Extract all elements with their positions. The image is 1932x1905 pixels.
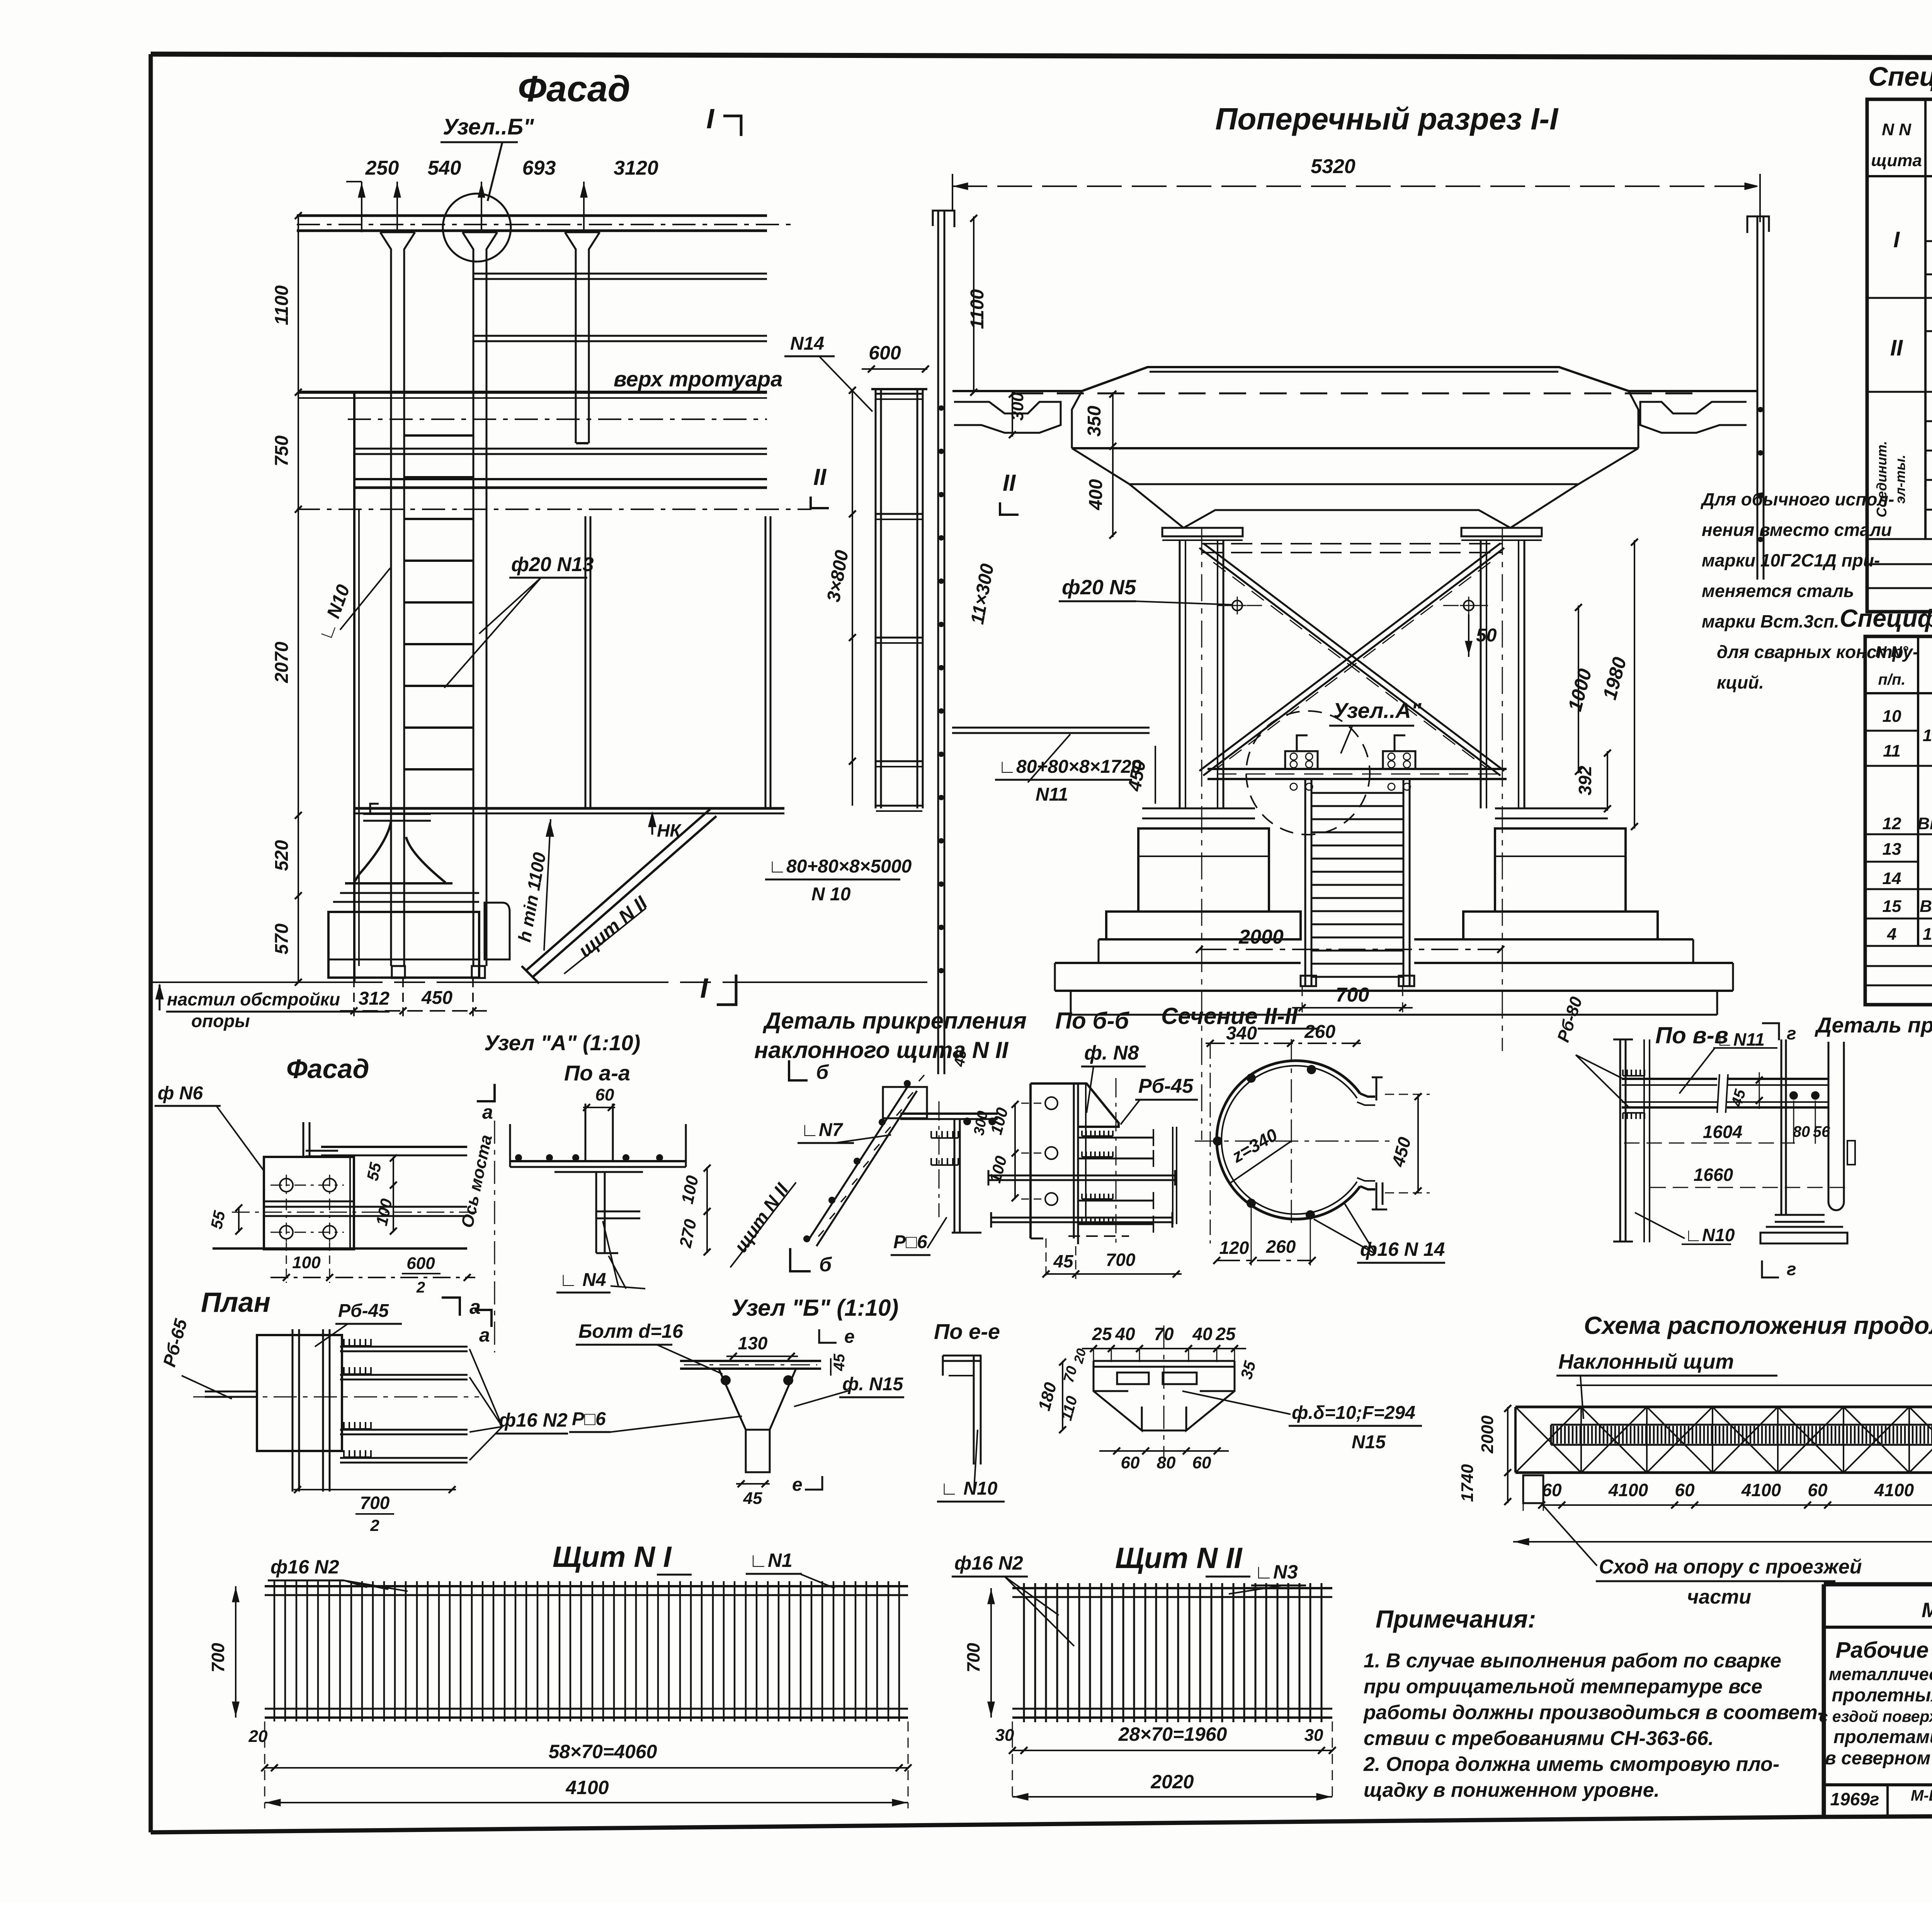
svg-text:350: 350: [1084, 406, 1105, 437]
svg-text:ф. N15: ф. N15: [842, 1374, 904, 1395]
svg-text:N11: N11: [1036, 784, 1068, 805]
svg-text:25: 25: [1215, 1324, 1236, 1344]
svg-text:693: 693: [522, 157, 556, 179]
svg-text:металлических жел.дор: металлических жел.дор: [1829, 1664, 1932, 1684]
svg-text:700: 700: [963, 1643, 983, 1672]
svg-text:Рб-45: Рб-45: [338, 1301, 389, 1321]
svg-text:a: a: [469, 1296, 481, 1318]
svg-text:260: 260: [1266, 1237, 1296, 1257]
svg-text:Для обычного испол-: Для обычного испол-: [1700, 489, 1894, 509]
svg-text:4100: 4100: [1874, 1480, 1914, 1500]
svg-text:в северном исполнении: в северном исполнении: [1825, 1748, 1932, 1769]
svg-text:б: б: [816, 1061, 829, 1083]
svg-text:ф20 N5: ф20 N5: [1062, 576, 1136, 599]
svg-text:N15: N15: [1352, 1432, 1386, 1453]
svg-text:2000: 2000: [1478, 1415, 1497, 1454]
svg-text:2: 2: [370, 1516, 379, 1534]
svg-text:Фасад: Фасад: [518, 68, 630, 109]
svg-text:∟N10: ∟N10: [1685, 1225, 1735, 1245]
svg-text:Спецификация металла на лестни: Спецификация металла на лестничный сход: [1840, 604, 1932, 632]
svg-text:60: 60: [1192, 1453, 1211, 1472]
svg-text:НК: НК: [657, 820, 682, 840]
detail: Узел Б (1:10): [569, 1295, 904, 1508]
svg-text:2. Опора должна иметь смотрову: 2. Опора должна иметь смотровую пло-: [1363, 1753, 1779, 1776]
svg-text:a: a: [479, 1324, 490, 1346]
svg-text:600: 600: [869, 342, 901, 364]
svg-text:∟ N10: ∟ N10: [940, 1478, 998, 1499]
svg-text:700: 700: [1336, 984, 1369, 1006]
svg-text:45: 45: [1053, 1251, 1074, 1271]
svg-text:80: 80: [1793, 1123, 1810, 1140]
svg-text:ф.δ=10;F=294: ф.δ=10;F=294: [1292, 1403, 1415, 1423]
svg-text:1969г: 1969г: [1830, 1789, 1879, 1809]
svg-text:1. В случае выполнения работ п: 1. В случае выполнения работ по сварке: [1364, 1650, 1781, 1672]
svg-text:Щит N II: Щит N II: [1115, 1542, 1243, 1575]
svg-text:II: II: [1890, 335, 1903, 361]
svg-text:260: 260: [1304, 1022, 1335, 1042]
svg-text:700: 700: [208, 1643, 228, 1672]
svg-text:30: 30: [995, 1726, 1014, 1745]
svg-text:г: г: [1787, 1259, 1796, 1279]
svg-text:10Г2С1Д: 10Г2С1Д: [1923, 726, 1932, 745]
detail: По в-в: [1554, 994, 1855, 1279]
svg-text:392: 392: [1575, 765, 1595, 795]
svg-text:щита: щита: [1871, 151, 1922, 170]
svg-text:N14: N14: [790, 333, 824, 354]
svg-text:∟ N4: ∟ N4: [559, 1270, 606, 1290]
panel: Щит N I: [208, 1541, 912, 1808]
svg-text:марки 10Г2С1Д при-: марки 10Г2С1Д при-: [1702, 550, 1880, 570]
svg-text:N N: N N: [1882, 120, 1912, 139]
svg-text:кций.: кций.: [1717, 672, 1764, 692]
svg-text:130: 130: [738, 1333, 768, 1353]
svg-text:5320: 5320: [1311, 155, 1355, 178]
svg-text:14: 14: [1883, 869, 1901, 888]
svg-text:700: 700: [360, 1493, 390, 1513]
svg-text:работы должны производиться в: работы должны производиться в соответ-: [1363, 1701, 1824, 1724]
svg-text:50: 50: [1476, 625, 1497, 646]
svg-text:40: 40: [1115, 1324, 1135, 1344]
svg-text:4: 4: [1887, 925, 1896, 944]
svg-text:Соединит.: Соединит.: [1874, 441, 1889, 517]
svg-text:30: 30: [1304, 1726, 1323, 1745]
svg-text:ф16 N2: ф16 N2: [499, 1409, 568, 1431]
svg-text:ф N6: ф N6: [158, 1083, 203, 1104]
svg-text:4100: 4100: [565, 1777, 609, 1798]
svg-text:Рб-45: Рб-45: [1138, 1075, 1194, 1097]
svg-text:Деталь прикрепления: Деталь прикрепления: [762, 1008, 1027, 1034]
svg-text:2020: 2020: [1150, 1771, 1194, 1793]
svg-text:45: 45: [743, 1489, 762, 1508]
svg-text:520: 520: [272, 840, 292, 871]
svg-text:4100: 4100: [1741, 1480, 1781, 1500]
svg-text:25: 25: [1092, 1324, 1112, 1344]
svg-text:Поперечный разрез I-I: Поперечный разрез I-I: [1215, 102, 1559, 136]
svg-text:Наклонный щит: Наклонный щит: [1558, 1350, 1734, 1373]
svg-text:По е-е: По е-е: [934, 1319, 1000, 1344]
svg-text:Узел..А": Узел..А": [1333, 698, 1422, 723]
svg-text:1740: 1740: [1458, 1464, 1477, 1502]
svg-text:12: 12: [1883, 814, 1901, 833]
svg-text:ствии с требованиями СН-363-6: ствии с требованиями СН-363-66.: [1364, 1727, 1714, 1750]
svg-text:60: 60: [1121, 1453, 1140, 1472]
svg-text:Схема расположения продольных: Схема расположения продольных ходов (по …: [1584, 1311, 1932, 1339]
svg-text:700: 700: [1106, 1250, 1136, 1270]
svg-text:250: 250: [365, 157, 399, 179]
svg-text:марки Вст.3сп.: марки Вст.3сп.: [1702, 611, 1839, 631]
svg-text:эл-ты.: эл-ты.: [1892, 454, 1908, 503]
svg-text:2: 2: [416, 1279, 425, 1296]
svg-text:г: г: [1787, 1023, 1796, 1043]
svg-text:Спецификация металла на продол: Спецификация металла на продольные смотр…: [1868, 61, 1932, 92]
svg-text:450: 450: [421, 988, 452, 1008]
svg-text:2000: 2000: [1238, 926, 1284, 948]
svg-text:1660: 1660: [1694, 1165, 1733, 1185]
svg-text:60: 60: [1808, 1480, 1828, 1500]
svg-text:е: е: [792, 1475, 803, 1495]
svg-text:с ездой поверху на балласте: с ездой поверху на балласте: [1819, 1708, 1932, 1725]
svg-text:Примечания:: Примечания:: [1376, 1605, 1536, 1633]
svg-text:400: 400: [1086, 479, 1106, 510]
svg-text:ф16 N2: ф16 N2: [954, 1552, 1023, 1574]
svg-text:1604: 1604: [1703, 1122, 1742, 1142]
svg-text:Фасад: Фасад: [286, 1054, 369, 1084]
svg-text:ф. N8: ф. N8: [1084, 1042, 1139, 1064]
svg-text:750: 750: [272, 435, 292, 466]
svg-text:2070: 2070: [272, 641, 292, 683]
svg-text:I: I: [700, 973, 709, 1004]
svg-text:15: 15: [1883, 897, 1901, 916]
view: Фасад (facade elevation): [151, 68, 929, 1031]
svg-text:40: 40: [1192, 1324, 1213, 1344]
svg-text:600: 600: [406, 1254, 435, 1273]
svg-text:4100: 4100: [1608, 1480, 1648, 1500]
svg-text:опоры: опоры: [191, 1011, 250, 1031]
table: Спецификация металла на лестничный сход: [1840, 604, 1932, 1005]
svg-text:570: 570: [272, 924, 292, 954]
svg-text:120: 120: [1219, 1238, 1249, 1258]
svg-text:28×70=1960: 28×70=1960: [1118, 1723, 1227, 1745]
svg-text:∟80+80×8×5000: ∟80+80×8×5000: [768, 856, 912, 877]
svg-text:части: части: [1687, 1586, 1751, 1608]
svg-text:N 10: N 10: [811, 884, 851, 905]
detail: plate N15 profile: [1035, 1324, 1422, 1472]
svg-text:a: a: [482, 1101, 493, 1123]
svg-text:настил обстройки: настил обстройки: [167, 989, 340, 1009]
svg-text:По б-б: По б-б: [1055, 1008, 1130, 1034]
detail: По б-б: [986, 1008, 1198, 1279]
svg-text:п/п.: п/п.: [1878, 671, 1905, 688]
svg-text:1100: 1100: [272, 285, 292, 325]
svg-text:312: 312: [359, 988, 389, 1009]
svg-text:45: 45: [831, 1354, 848, 1371]
svg-text:∟N1: ∟N1: [749, 1550, 793, 1571]
svg-text:Щит N I: Щит N I: [553, 1541, 672, 1573]
svg-text:Р□6: Р□6: [893, 1232, 927, 1252]
schematic: Схема расположения продольных ходов: [1458, 1311, 1932, 1608]
svg-text:Узел "А" (1:10): Узел "А" (1:10): [484, 1031, 640, 1055]
detail: Деталь прикрепления наклонного щита N II: [730, 1008, 1027, 1276]
svg-text:Болт d=16: Болт d=16: [578, 1320, 684, 1342]
svg-text:13: 13: [1883, 840, 1901, 859]
svg-text:е: е: [844, 1327, 855, 1347]
svg-text:II: II: [813, 464, 827, 490]
detail: Деталь прикрепления строек лестничного схода: [159, 1013, 1932, 1850]
notes: Примечания: [1363, 1605, 1824, 1801]
svg-text:N N°: N N°: [1876, 643, 1909, 660]
svg-text:I: I: [706, 104, 715, 134]
svg-text:По а-а: По а-а: [564, 1061, 630, 1085]
detail: Фасад (small attachment facade): [155, 1054, 496, 1352]
svg-text:щадку в пониженном уровне.: щадку в пониженном уровне.: [1364, 1779, 1660, 1801]
svg-text:Узел..Б": Узел..Б": [443, 114, 534, 139]
svg-text:Сход на опору с проезжей: Сход на опору с проезжей: [1599, 1556, 1862, 1578]
svg-text:II: II: [1003, 470, 1016, 496]
svg-text:Деталь прикрепления строек лес: Деталь прикрепления строек лестничного с…: [1815, 1013, 1932, 1037]
panel: Щит N II: [952, 1542, 1336, 1803]
detail: Сечение II-II: [1161, 1003, 1445, 1265]
svg-text:80: 80: [1157, 1453, 1176, 1472]
svg-text:ф20 N13: ф20 N13: [511, 553, 594, 576]
svg-text:∟N11: ∟N11: [1716, 1029, 1765, 1049]
svg-text:60: 60: [1675, 1480, 1695, 1500]
svg-text:11: 11: [1883, 742, 1901, 760]
svg-text:45: 45: [951, 1049, 970, 1068]
svg-text:60: 60: [595, 1085, 614, 1104]
note: steel grade remark: [1700, 489, 1918, 692]
svg-text:при отрицательной температуре: при отрицательной температуре все: [1364, 1675, 1762, 1698]
detail: Узел А (1:10) / По а-а: [474, 1031, 711, 1346]
svg-text:Министерство транспортного с: Министерство транспортного строительство…: [1922, 1599, 1932, 1622]
svg-text:I: I: [1893, 227, 1900, 252]
svg-text:10Г2С1Д: 10Г2С1Д: [1923, 925, 1932, 944]
svg-text:1100: 1100: [967, 289, 988, 329]
detail: По е-е: [934, 1319, 1005, 1502]
svg-text:∟N7: ∟N7: [801, 1120, 844, 1140]
view: Поперечный разрез I-I (cross-section): [765, 102, 1769, 1140]
detail: План: [159, 1287, 568, 1534]
svg-text:540: 540: [428, 157, 461, 179]
svg-text:верх тротуара: верх тротуара: [614, 367, 782, 391]
svg-text:пролетами 18 2-66 0м: пролетами 18 2-66 0м: [1833, 1727, 1932, 1747]
table: Спецификация металла на продольные смотровые ходы: [1867, 61, 1932, 612]
svg-text:меняется сталь: меняется сталь: [1702, 581, 1854, 601]
svg-text:План: План: [201, 1287, 270, 1318]
svg-text:3120: 3120: [614, 157, 658, 179]
svg-text:58×70=4060: 58×70=4060: [549, 1741, 657, 1762]
svg-text:340: 340: [1226, 1023, 1257, 1044]
svg-text:100: 100: [292, 1253, 321, 1272]
svg-text:60: 60: [1542, 1480, 1562, 1500]
svg-text:Вмст3сп: Вмст3сп: [1920, 897, 1932, 916]
svg-text:пролетных строений: пролетных строений: [1832, 1685, 1932, 1706]
svg-text:Вмст.3сп: Вмст.3сп: [1917, 814, 1932, 833]
svg-text:∟N3: ∟N3: [1254, 1561, 1298, 1583]
title block: [1819, 1584, 1932, 1817]
svg-text:ф16 N2: ф16 N2: [270, 1556, 339, 1578]
svg-text:наклонного щита N II: наклонного щита N II: [754, 1037, 1009, 1063]
svg-text:10: 10: [1883, 707, 1901, 726]
svg-text:∟80+80×8×1720: ∟80+80×8×1720: [998, 757, 1142, 777]
svg-text:б: б: [819, 1254, 832, 1276]
svg-text:Р□6: Р□6: [572, 1409, 606, 1429]
svg-text:М-Б: М-Б: [1911, 1787, 1932, 1804]
svg-text:нения вместо стали: нения вместо стали: [1702, 520, 1892, 540]
svg-text:Рабочие чертежи: Рабочие чертежи: [1836, 1638, 1932, 1663]
svg-text:Узел "Б" (1:10): Узел "Б" (1:10): [731, 1295, 898, 1321]
